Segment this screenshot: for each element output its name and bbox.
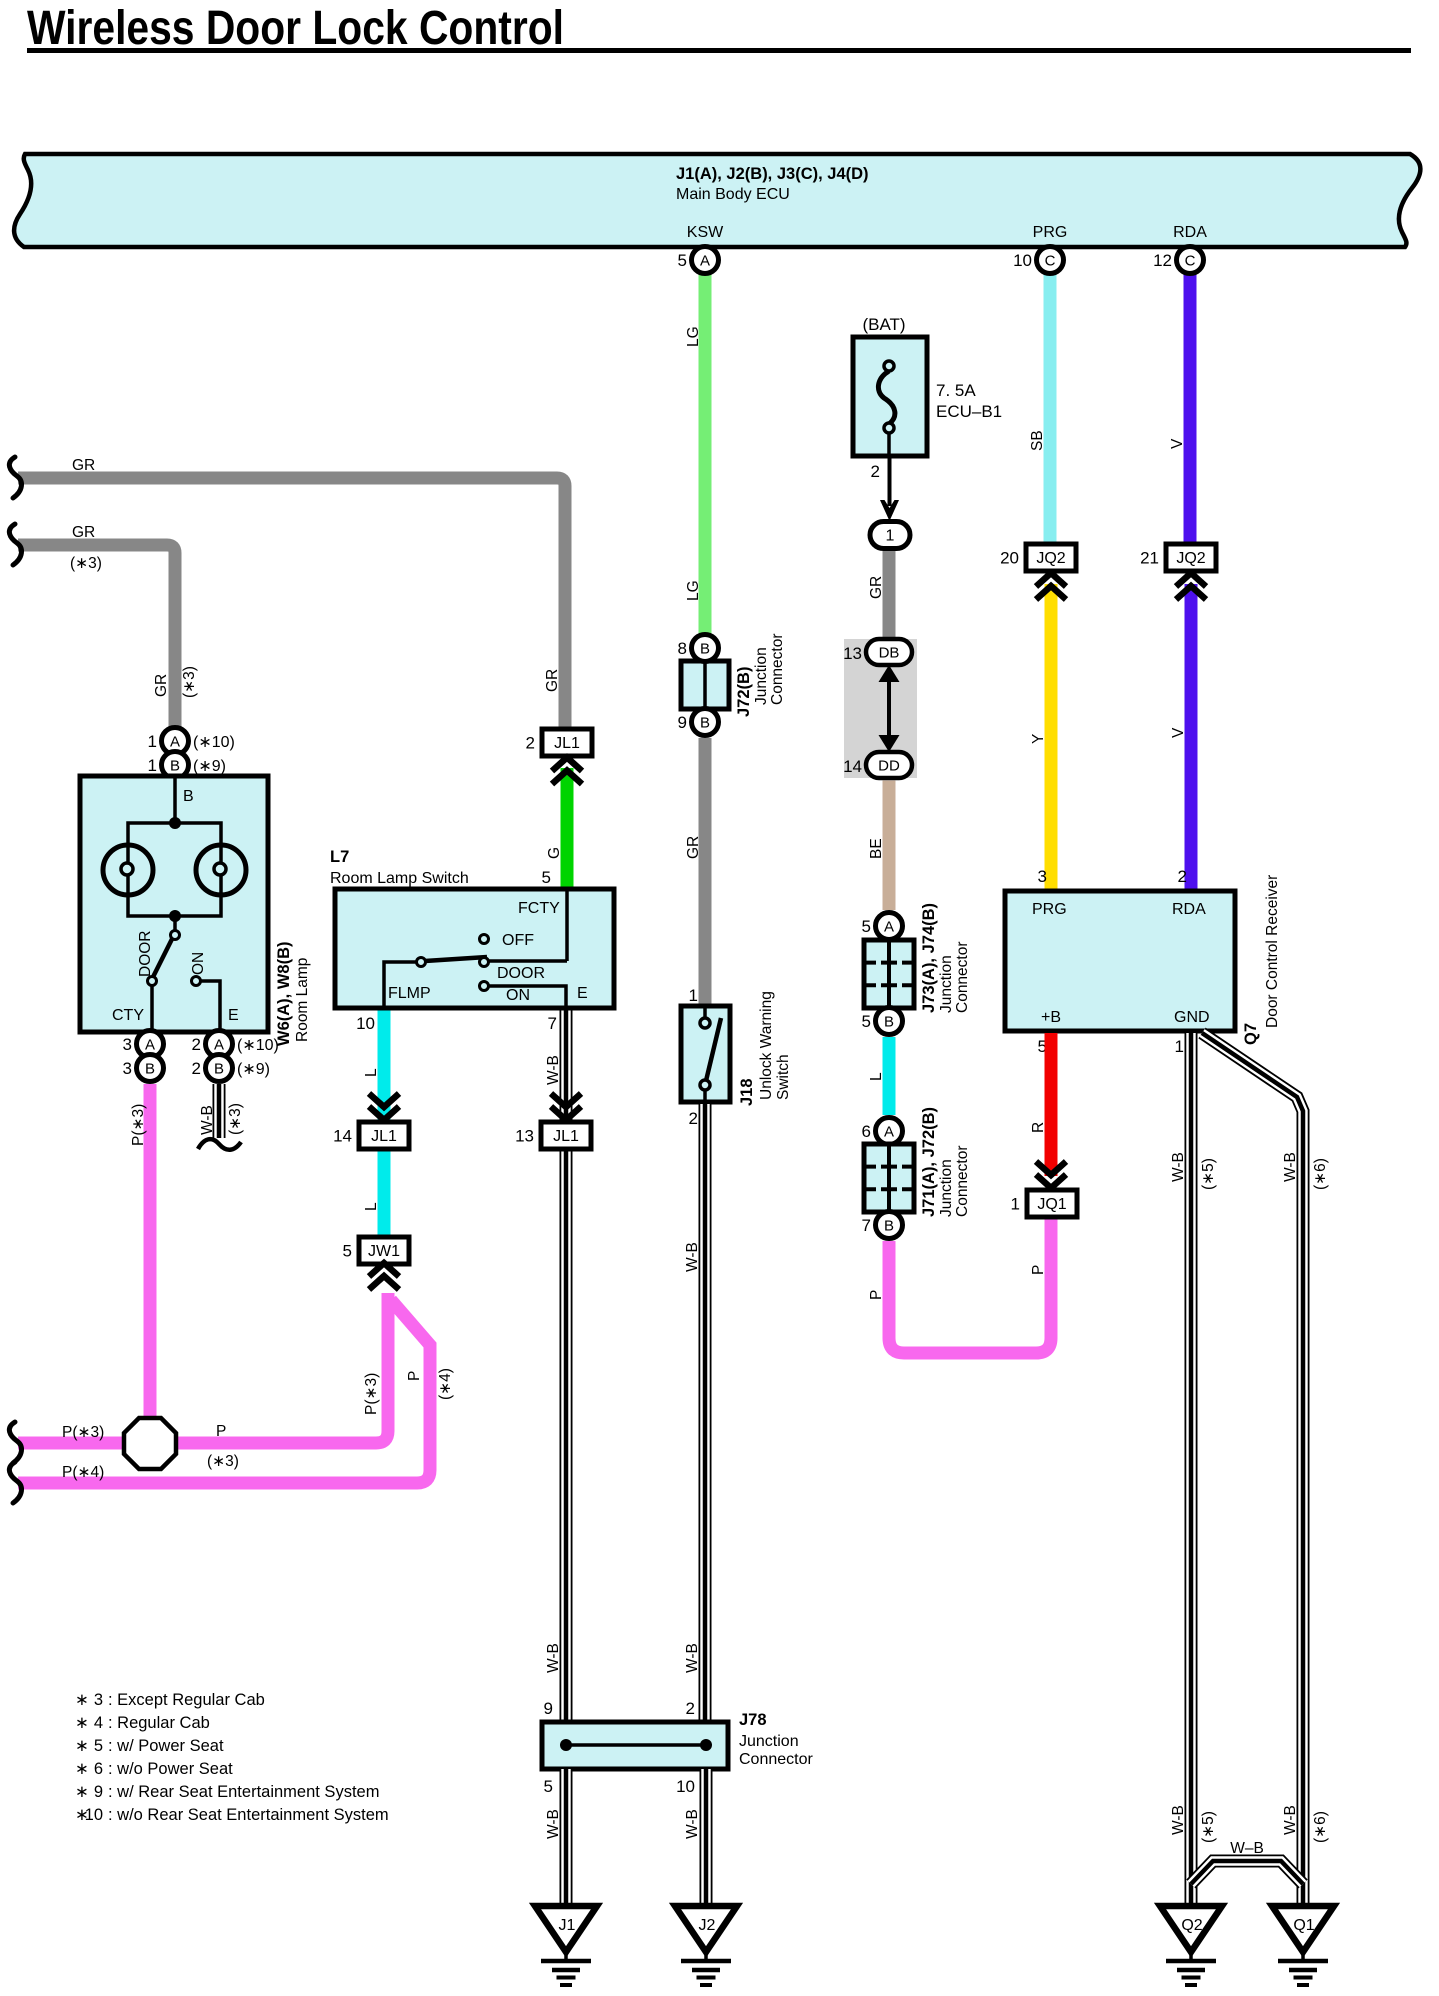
svg-text:Switch: Switch: [775, 1054, 792, 1100]
svg-text:1: 1: [148, 732, 157, 751]
svg-text:GR: GR: [868, 576, 885, 599]
ground Q1: [1272, 1906, 1334, 1985]
svg-text:OFF: OFF: [502, 932, 534, 949]
svg-text:14: 14: [843, 757, 862, 776]
svg-text:W-B: W-B: [1170, 1805, 1187, 1835]
junction JQ2 pin 21 box: [1140, 544, 1216, 571]
svg-text:Y: Y: [1030, 734, 1047, 744]
wire R from receiver +B to JQ1: [1045, 1033, 1058, 1176]
svg-text:A: A: [214, 1037, 224, 1054]
svg-text:5: 5: [542, 868, 551, 887]
svg-text:10: 10: [1013, 251, 1032, 270]
svg-text:B: B: [700, 715, 710, 732]
svg-text:: Except Regular Cab: : Except Regular Cab: [108, 1691, 265, 1709]
svg-text:L: L: [868, 1072, 885, 1081]
svg-text:RDA: RDA: [1172, 901, 1206, 918]
svg-text:P(∗3): P(∗3): [130, 1104, 147, 1146]
ground J1: [535, 1906, 597, 1985]
svg-text:GND: GND: [1174, 1009, 1210, 1026]
svg-text:B: B: [884, 1218, 894, 1235]
svg-text:GR: GR: [544, 669, 561, 692]
svg-text:2: 2: [871, 462, 880, 481]
wire W-B from receiver GND to ground Q2: [1185, 1033, 1198, 1906]
svg-text:ECU–B1: ECU–B1: [936, 402, 1002, 421]
bridge W-B between Q2 and Q1 wires: [1191, 1861, 1303, 1884]
pin 1 B (*9) above room lamp: [162, 752, 189, 779]
pin 6 A on J71: [876, 1118, 903, 1145]
svg-text:L: L: [363, 1202, 380, 1211]
svg-text:2: 2: [526, 734, 535, 753]
svg-text:5: 5: [678, 251, 687, 270]
chevron arrows up into JQ2 right: [1176, 573, 1206, 600]
svg-text:3: 3: [123, 1035, 132, 1054]
svg-text:GR: GR: [72, 524, 95, 541]
svg-text:: w/ Power Seat: : w/ Power Seat: [108, 1737, 224, 1755]
wire W-B from L7 pin 7 down to J78 pin 9: [560, 1011, 573, 1723]
chevron arrows up into JW1: [369, 1263, 399, 1290]
svg-text:W-B: W-B: [545, 1055, 562, 1085]
svg-text:12: 12: [1153, 251, 1172, 270]
svg-text:J78: J78: [739, 1711, 767, 1729]
svg-text:Connector: Connector: [769, 633, 786, 705]
chevron arrows up into JL1: [552, 758, 582, 785]
svg-text:Wireless Door Lock Control: Wireless Door Lock Control: [27, 2, 564, 55]
svg-text:C: C: [1045, 253, 1056, 270]
ECU J1-J4 Main Body ECU band: [14, 154, 1420, 247]
label J71(A), J72(B) Junction Connector: [920, 1107, 971, 1217]
wire L from L7 pin 10 to JL1 pin 14: [378, 1011, 391, 1121]
chevron arrows down into JL1 14: [369, 1094, 399, 1121]
svg-text:A: A: [170, 734, 180, 751]
svg-text:Junction: Junction: [938, 955, 955, 1013]
svg-text:J71(A), J72(B): J71(A), J72(B): [920, 1107, 938, 1217]
octagon node: [124, 1418, 176, 1469]
svg-text:J1: J1: [559, 1917, 576, 1934]
svg-text:V: V: [1169, 438, 1186, 449]
svg-text:(∗9): (∗9): [193, 758, 226, 775]
svg-text:Junction: Junction: [753, 647, 770, 705]
svg-text:P: P: [868, 1290, 885, 1300]
break squiggle below W-B stub: [198, 1139, 241, 1150]
svg-text:(∗4): (∗4): [437, 1368, 454, 1400]
svg-text:A: A: [884, 919, 894, 936]
pin 5 B on J73: [876, 1008, 903, 1035]
pin 10 C on ECU PRG: [1037, 247, 1064, 274]
chevron arrows down into JL1 13: [551, 1094, 581, 1121]
svg-text:2: 2: [192, 1059, 201, 1078]
svg-text:(∗5): (∗5): [1200, 1158, 1217, 1190]
svg-text:7: 7: [862, 1216, 871, 1235]
svg-text:P(∗3): P(∗3): [62, 1424, 104, 1441]
label W-B (*5) lower: [1170, 1805, 1217, 1843]
label W-B (*5) upper: [1170, 1152, 1217, 1190]
svg-text:JQ2: JQ2: [1176, 550, 1205, 567]
svg-text:FCTY: FCTY: [518, 900, 560, 917]
wire V from JQ2 to receiver RDA: [1185, 584, 1198, 891]
wire P (*4) from left break to JW1 riser: [18, 1300, 430, 1483]
svg-text:P: P: [1030, 1265, 1047, 1275]
pin 3 B below room lamp: [137, 1055, 164, 1082]
room lamp door switch: [148, 916, 180, 1032]
pin 12 C on ECU RDA: [1177, 247, 1204, 274]
svg-text:A: A: [884, 1124, 894, 1141]
label J18 Unlock Warning Switch: [738, 991, 792, 1106]
svg-text:W-B: W-B: [684, 1809, 701, 1839]
svg-text:RDA: RDA: [1173, 224, 1207, 241]
break squiggle GR wire: [9, 457, 21, 498]
svg-text:B: B: [183, 788, 194, 805]
room lamp ON contact: [192, 977, 221, 1033]
oval pin 14 DD: [866, 752, 912, 778]
svg-text:A: A: [145, 1037, 155, 1054]
svg-text:∗: ∗: [75, 1737, 89, 1755]
svg-text:Main Body ECU: Main Body ECU: [676, 186, 790, 203]
svg-text:Connector: Connector: [954, 1145, 971, 1217]
junction connector J72(B) box: [681, 661, 729, 709]
wire L from J73 5B to J71 6A: [883, 1037, 896, 1115]
wire GR horizontal from left break to JL1 pin 2: [18, 478, 565, 729]
double arrow between DB and DD: [879, 665, 900, 752]
label L7 Room Lamp Switch: [330, 848, 469, 887]
svg-text:(∗5): (∗5): [1200, 1811, 1217, 1843]
label J78 Junction Connector: [739, 1711, 813, 1768]
svg-text:GR: GR: [685, 836, 702, 859]
svg-text:L: L: [363, 1068, 380, 1077]
fuse 7.5A ECU-B1 (BAT): [853, 315, 1002, 456]
svg-text:L7: L7: [330, 848, 349, 866]
svg-text:2: 2: [192, 1035, 201, 1054]
svg-text:PRG: PRG: [1032, 901, 1067, 918]
junction JW1 pin 5 box: [343, 1237, 409, 1264]
svg-text:KSW: KSW: [687, 224, 724, 241]
svg-text:Q2: Q2: [1181, 1917, 1202, 1934]
junction JL1 pin 13 box: [515, 1122, 591, 1149]
room lamp W6(A), W8(B) box: [80, 776, 268, 1032]
svg-text:3: 3: [123, 1059, 132, 1078]
svg-text:8: 8: [678, 639, 687, 658]
junction JQ1 pin 1 box: [1011, 1190, 1077, 1217]
svg-text:1: 1: [1175, 1037, 1184, 1056]
svg-text:10: 10: [676, 1777, 695, 1796]
wire GR (*3) from left break to room lamp pin 1: [18, 545, 175, 727]
svg-text:9: 9: [544, 1699, 553, 1718]
pin 2 B (*9) below room lamp: [206, 1055, 233, 1082]
wire SB from ECU PRG pin 10C to JQ2: [1044, 262, 1057, 544]
pin 5 A on J73: [876, 913, 903, 940]
label J73(A), J74(B) Junction Connector: [920, 903, 971, 1013]
svg-text:Room Lamp: Room Lamp: [294, 958, 311, 1042]
svg-text:W–B: W–B: [1230, 1840, 1264, 1857]
solid arrow down to node 1: [880, 500, 899, 521]
svg-text:(∗10): (∗10): [193, 734, 235, 751]
svg-text:W-B: W-B: [545, 1643, 562, 1673]
wire Y from JQ2 down to receiver PRG: [1045, 584, 1058, 891]
svg-text:7: 7: [548, 1014, 557, 1033]
svg-text:P: P: [406, 1371, 423, 1381]
svg-text:∗: ∗: [75, 1783, 89, 1801]
svg-text:LG: LG: [685, 580, 702, 601]
svg-text:: w/ Rear Seat Entertainment S: : w/ Rear Seat Entertainment System: [108, 1783, 379, 1801]
svg-text:3: 3: [94, 1691, 103, 1709]
svg-text:(∗6): (∗6): [1312, 1811, 1329, 1843]
svg-text:P: P: [216, 1423, 226, 1440]
svg-text:Room Lamp Switch: Room Lamp Switch: [330, 870, 469, 887]
svg-text:J18: J18: [738, 1078, 756, 1106]
wire W-B from J18 pin 2 down to J78 pin 2: [699, 1104, 712, 1722]
svg-text:JL1: JL1: [553, 1128, 579, 1145]
svg-text:∗: ∗: [75, 1714, 89, 1732]
node oval 1: [870, 522, 910, 549]
svg-text:9: 9: [94, 1783, 103, 1801]
svg-text:7. 5A: 7. 5A: [936, 381, 976, 400]
svg-text:+B: +B: [1041, 1009, 1061, 1026]
oval pin 13 DB: [866, 639, 912, 665]
svg-text:(∗3): (∗3): [70, 555, 102, 572]
break squiggle P(*4) wire: [9, 1462, 21, 1503]
svg-text:ON: ON: [506, 987, 530, 1004]
label W-B (*6) upper: [1282, 1152, 1329, 1190]
wire BE from DD to J73 pin 5A: [883, 781, 896, 911]
svg-text:: w/o Rear Seat Entertainment: : w/o Rear Seat Entertainment System: [108, 1806, 389, 1824]
svg-text:4: 4: [94, 1714, 103, 1732]
svg-text:∗: ∗: [75, 1760, 89, 1778]
label J72(B) Junction Connector: [735, 633, 786, 717]
svg-text:R: R: [1030, 1122, 1047, 1133]
svg-text:21: 21: [1140, 549, 1159, 568]
svg-text:Q7: Q7: [1242, 1023, 1260, 1045]
svg-text:(∗6): (∗6): [1312, 1158, 1329, 1190]
svg-text:Connector: Connector: [954, 941, 971, 1013]
svg-text:CTY: CTY: [112, 1007, 144, 1024]
svg-text:Junction: Junction: [938, 1159, 955, 1217]
svg-text:FLMP: FLMP: [388, 985, 431, 1002]
svg-text:2: 2: [689, 1109, 698, 1128]
svg-text:(∗10): (∗10): [237, 1037, 279, 1054]
svg-text:V: V: [1170, 727, 1187, 738]
door control receiver Q7 box: [1005, 891, 1235, 1031]
svg-text:DB: DB: [879, 645, 900, 662]
svg-text:W-B: W-B: [199, 1105, 216, 1135]
svg-text:Unlock Warning: Unlock Warning: [758, 991, 775, 1100]
break squiggle GR (*3) wire: [9, 524, 21, 565]
svg-text:1: 1: [148, 756, 157, 775]
svg-text:B: B: [700, 641, 710, 658]
svg-text:B: B: [214, 1061, 224, 1078]
junction JL1 pin 2 box: [526, 729, 592, 756]
svg-text:W6(A), W8(B): W6(A), W8(B): [275, 942, 293, 1046]
wire W-B branch (*6) to ground Q1: [1202, 1033, 1303, 1906]
svg-text:1: 1: [689, 986, 698, 1005]
wire W-B J78 pin 5 to ground J1: [560, 1769, 573, 1906]
svg-text:JL1: JL1: [554, 735, 580, 752]
bulb 1 room lamp: [103, 845, 153, 895]
wire P from J71 7B to JQ1: [889, 1219, 1051, 1353]
svg-text:DOOR: DOOR: [497, 965, 545, 982]
svg-text:∗: ∗: [75, 1691, 89, 1709]
ground J2: [675, 1906, 737, 1985]
svg-text:W-B: W-B: [684, 1242, 701, 1272]
svg-text:Junction: Junction: [739, 1733, 799, 1750]
svg-text:W-B: W-B: [684, 1643, 701, 1673]
svg-text:B: B: [145, 1061, 155, 1078]
svg-text:C: C: [1185, 253, 1196, 270]
label W6(A), W8(B) Room Lamp: [275, 942, 311, 1046]
shaded connector block DB DD: [844, 639, 917, 778]
svg-text:: Regular Cab: : Regular Cab: [108, 1714, 210, 1732]
svg-text:Q1: Q1: [1293, 1917, 1314, 1934]
svg-text:P(∗4): P(∗4): [62, 1464, 104, 1481]
svg-text:PRG: PRG: [1033, 224, 1068, 241]
svg-text:(∗3): (∗3): [207, 1453, 239, 1470]
svg-text:G: G: [546, 847, 563, 859]
svg-text:B: B: [170, 758, 180, 775]
svg-text:BE: BE: [868, 838, 885, 859]
unlock warning switch J18: [681, 986, 730, 1128]
wire P (*3) from room lamp pin 3B down to octagon node: [144, 1084, 157, 1443]
svg-text:2: 2: [686, 1699, 695, 1718]
svg-text:B: B: [884, 1014, 894, 1031]
svg-text:E: E: [577, 985, 588, 1002]
svg-text:(∗3): (∗3): [181, 666, 198, 698]
pin 9 B on J72(B): [692, 709, 719, 736]
svg-text:5: 5: [544, 1777, 553, 1796]
svg-text:GR: GR: [153, 674, 170, 697]
svg-text:Connector: Connector: [739, 1751, 813, 1768]
junction connector J78 box: [542, 1722, 728, 1769]
legend notes: [75, 1691, 389, 1824]
wire LG from ECU KSW pin 5A down to J72 pin 8B: [699, 262, 712, 649]
svg-text:GR: GR: [72, 457, 95, 474]
svg-text:3: 3: [1038, 867, 1047, 886]
svg-text:(∗3): (∗3): [227, 1103, 244, 1135]
room lamp switch L7 box: [335, 889, 614, 1008]
svg-text:W-B: W-B: [1282, 1805, 1299, 1835]
svg-text:13: 13: [843, 644, 862, 663]
wire G from JL1 chevron down to L7 pin 5: [561, 768, 574, 889]
svg-text:5: 5: [343, 1242, 352, 1261]
svg-text:5: 5: [862, 917, 871, 936]
wire W-B (*3) stub below pin 2B: [213, 1084, 226, 1138]
svg-text:ON: ON: [190, 952, 207, 975]
chevron arrows down into JQ1: [1036, 1162, 1066, 1189]
svg-text:5: 5: [94, 1737, 103, 1755]
svg-text:1: 1: [886, 528, 895, 545]
svg-text:E: E: [228, 1007, 239, 1024]
svg-text:JL1: JL1: [371, 1128, 397, 1145]
svg-text:13: 13: [515, 1127, 534, 1146]
pin 3 A below room lamp: [137, 1031, 164, 1058]
wire L from JL1 to JW1: [378, 1152, 391, 1236]
svg-text:6: 6: [862, 1122, 871, 1141]
wire W-B J78 pin 10 to ground J2: [700, 1769, 713, 1906]
svg-text:DOOR: DOOR: [137, 931, 154, 978]
label W-B (*6) lower: [1282, 1805, 1329, 1843]
svg-text:: w/o Power Seat: : w/o Power Seat: [108, 1760, 233, 1778]
wire from fuse pin 2 to node 1: [888, 456, 892, 506]
svg-text:10: 10: [85, 1806, 103, 1824]
svg-text:SB: SB: [1029, 430, 1046, 451]
wire GR from J72 pin 9B down to J18 pin 1: [699, 738, 712, 1007]
svg-text:W-B: W-B: [545, 1809, 562, 1839]
svg-text:14: 14: [333, 1127, 352, 1146]
pin 1 A (*10) above room lamp: [162, 728, 189, 755]
svg-text:Door Control Receiver: Door Control Receiver: [1264, 875, 1281, 1028]
junction connector J71(A), J72(B) box: [864, 1144, 914, 1212]
svg-text:A: A: [700, 253, 710, 270]
wire P horizontal through octagon to JW1 riser: [18, 1293, 388, 1443]
svg-text:J2: J2: [699, 1917, 716, 1934]
break squiggle P(*3) wire: [9, 1422, 21, 1463]
svg-text:LG: LG: [685, 326, 702, 347]
svg-text:W-B: W-B: [1170, 1152, 1187, 1182]
svg-text:5: 5: [862, 1012, 871, 1031]
pin 8 B on J72(B): [692, 635, 719, 662]
junction connector J73(A), J74(B) box: [864, 940, 914, 1008]
svg-text:20: 20: [1000, 549, 1019, 568]
junction JL1 pin 14 box: [333, 1122, 409, 1149]
svg-text:(∗9): (∗9): [237, 1061, 270, 1078]
svg-text:W-B: W-B: [1282, 1152, 1299, 1182]
wire V from ECU RDA pin 12C to JQ2: [1184, 262, 1197, 544]
svg-text:JQ1: JQ1: [1037, 1196, 1066, 1213]
junction JQ2 pin 20 box: [1000, 544, 1076, 571]
pin 5 A on ECU KSW: [692, 247, 719, 274]
svg-text:P(∗3): P(∗3): [363, 1373, 380, 1415]
pin 2 A (*10) below room lamp: [206, 1031, 233, 1058]
svg-text:J73(A), J74(B): J73(A), J74(B): [920, 903, 938, 1013]
svg-text:J1(A), J2(B), J3(C), J4(D): J1(A), J2(B), J3(C), J4(D): [676, 165, 869, 183]
title: Wireless Door Lock Control: [27, 2, 1411, 55]
svg-text:JQ2: JQ2: [1036, 550, 1065, 567]
svg-text:9: 9: [678, 713, 687, 732]
svg-text:(BAT): (BAT): [862, 315, 905, 334]
svg-text:JW1: JW1: [368, 1243, 400, 1260]
pin 7 B on J71: [876, 1212, 903, 1239]
svg-text:J72(B): J72(B): [735, 667, 753, 717]
svg-text:2: 2: [1178, 867, 1187, 886]
chevron arrows up into JQ2 left: [1036, 573, 1066, 600]
svg-text:6: 6: [94, 1760, 103, 1778]
wire GR from node 1 to DB: [883, 551, 896, 639]
ground Q2: [1160, 1906, 1222, 1985]
svg-text:10: 10: [356, 1014, 375, 1033]
svg-text:1: 1: [1011, 1195, 1020, 1214]
svg-text:DD: DD: [878, 758, 900, 775]
label Q7 Door Control Receiver: [1242, 875, 1281, 1045]
bulb 2 room lamp: [196, 845, 246, 895]
